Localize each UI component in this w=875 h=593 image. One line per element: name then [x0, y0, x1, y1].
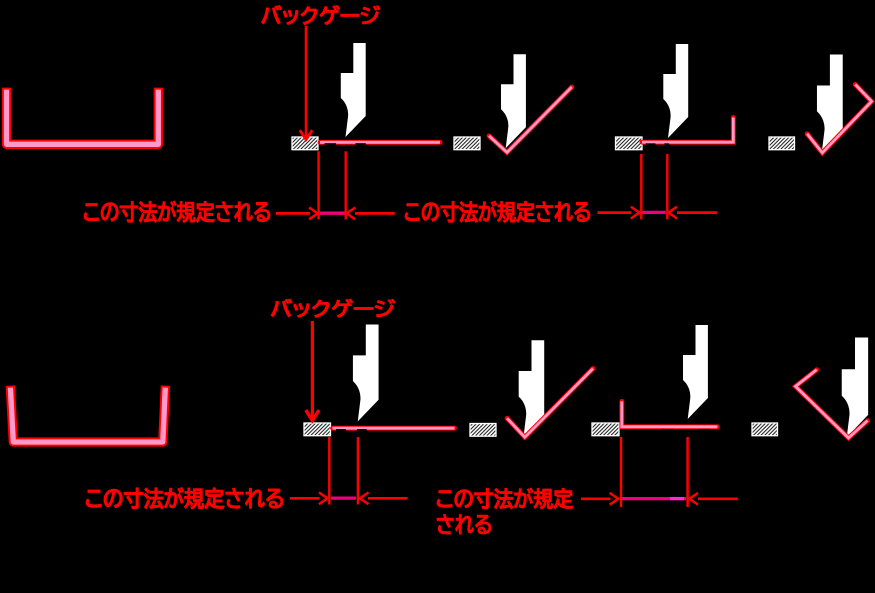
back gauge block G3 (hatched)	[616, 137, 643, 150]
press punch tool T1	[341, 43, 366, 137]
label back-gauge (top)	[261, 5, 380, 24]
U-channel bent part (top left)	[7, 88, 159, 145]
U-channel bent part (bottom left, sprung open)	[10, 386, 165, 442]
back gauge block G7 (hatched)	[592, 423, 619, 436]
back gauge pointer arrow (top)	[300, 26, 312, 140]
press punch tool T4	[817, 55, 843, 152]
dimension arrows (top press 1)	[276, 208, 395, 220]
press punch tool B3	[683, 325, 708, 419]
dimension text 4 line2	[437, 514, 491, 534]
die shoulders under sheet S5	[336, 429, 367, 434]
sheet metal workpiece S5	[333, 426, 455, 431]
sheet metal workpiece S8	[796, 370, 868, 438]
back gauge block G5 (hatched)	[304, 423, 331, 436]
press punch tool T2	[501, 54, 526, 148]
back gauge block G4 (hatched)	[769, 137, 795, 150]
back gauge pointer arrow (bottom)	[306, 321, 319, 421]
dimension extension lines (top press 3)	[641, 154, 667, 219]
die shoulders under sheet S3	[646, 143, 669, 146]
label back-gauge (bottom)	[271, 299, 395, 317]
die shoulders under sheet S7	[661, 429, 710, 434]
dimension text 4 line1 (bottom right)	[437, 488, 573, 509]
back gauge block G2 (hatched)	[454, 137, 480, 150]
sheet metal workpiece S7	[622, 401, 718, 426]
dimension text 2 (top middle)	[405, 201, 590, 223]
dimension arrows (top press 3)	[598, 207, 718, 219]
dimension text 3 (bottom left)	[86, 488, 283, 510]
dimension extension lines (top press 1)	[319, 151, 346, 219]
press punch tool B1	[353, 325, 379, 422]
press punch tool T3	[663, 44, 688, 138]
back gauge block G1 (hatched)	[292, 137, 318, 150]
sheet metal workpiece S6	[507, 369, 593, 438]
press punch tool B4	[842, 338, 868, 438]
back gauge block G8 (hatched)	[752, 423, 778, 436]
sheet metal workpiece S1	[320, 140, 440, 145]
sheet metal workpiece S2	[489, 87, 572, 152]
dimension arrows (bottom press 1)	[290, 492, 407, 504]
dimension extension lines (bottom press 1)	[329, 437, 358, 505]
sheet metal workpiece S4	[807, 84, 872, 152]
dimension extension lines (bottom press 3)	[621, 437, 688, 507]
sheet metal workpiece S3	[642, 118, 733, 143]
press punch tool B2	[519, 340, 545, 436]
die shoulders under sheet S1	[325, 143, 366, 148]
dimension arrows (bottom press 3)	[581, 493, 738, 505]
back gauge block G6 (hatched)	[470, 424, 496, 437]
dimension text 1 (top left)	[84, 201, 270, 223]
